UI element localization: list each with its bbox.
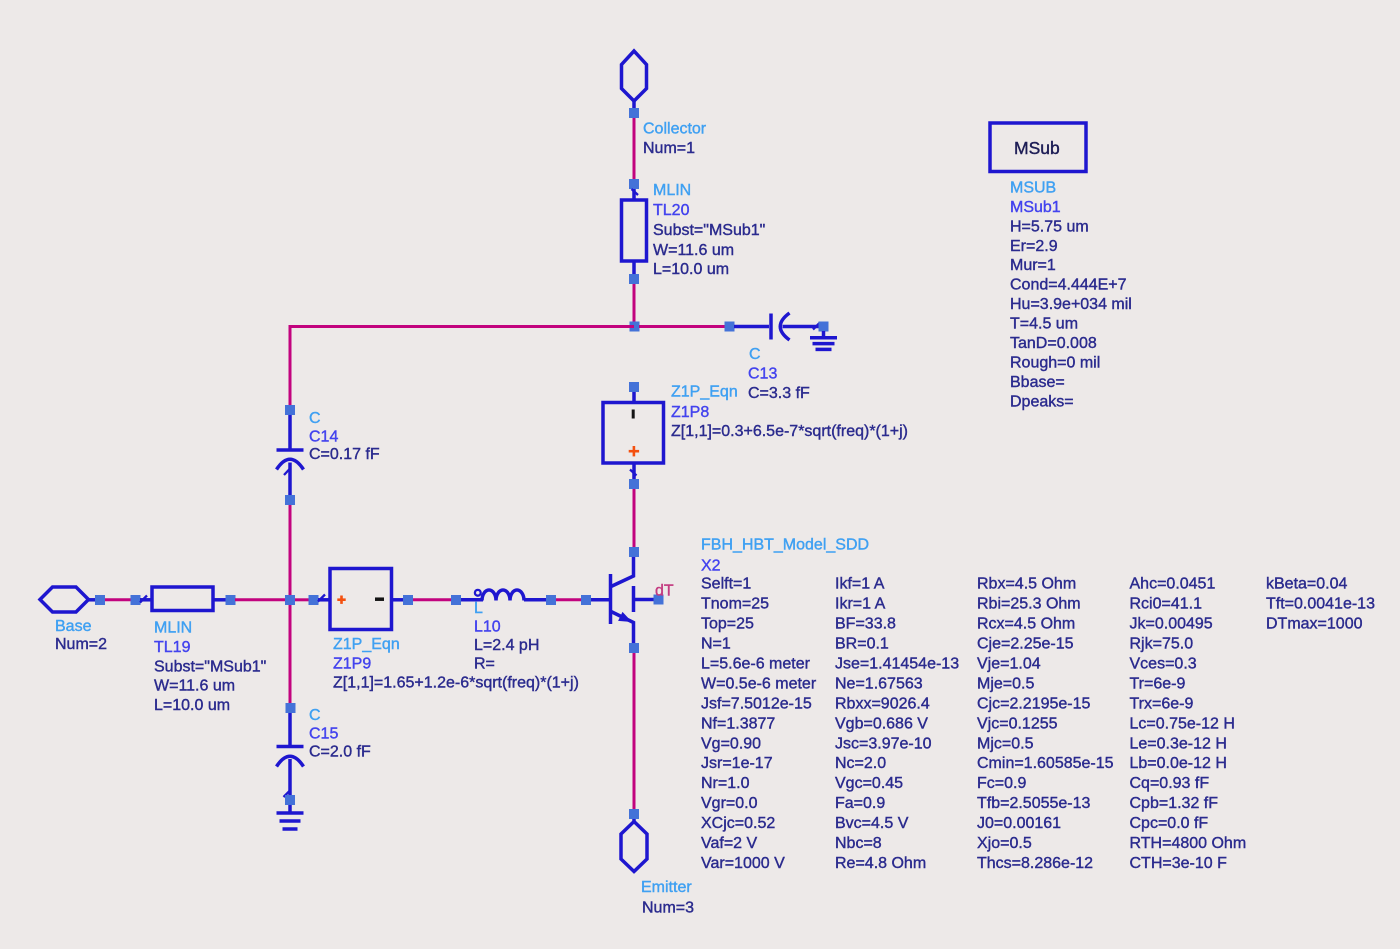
- Z1P_Eqn Z1P9: [318, 569, 404, 630]
- ground at C15: [277, 805, 304, 829]
- label MSUB MSub1 parameters: [1010, 179, 1132, 410]
- svg-text:Mjc=0.5: Mjc=0.5: [977, 735, 1034, 752]
- svg-text:Tfb=2.5055e-13: Tfb=2.5055e-13: [977, 795, 1091, 812]
- svg-text:Tr=6e-9: Tr=6e-9: [1130, 676, 1186, 693]
- label X2 parameters column 5: [1266, 576, 1375, 633]
- Z1P_Eqn Z1P8: [603, 392, 664, 480]
- svg-text:Vgc=0.45: Vgc=0.45: [835, 775, 903, 792]
- svg-text:Z[1,1]=0.3+6.5e-7*sqrt(freq)*(: Z[1,1]=0.3+6.5e-7*sqrt(freq)*(1+j): [671, 423, 908, 440]
- svg-text:R=: R=: [474, 656, 495, 673]
- svg-text:C=2.0 fF: C=2.0 fF: [309, 744, 371, 761]
- svg-text:N=1: N=1: [701, 636, 731, 653]
- label FBH_HBT_Model_SDD X2 header: [701, 537, 869, 575]
- wire L10 to transistor base: [556, 598, 582, 601]
- label capacitor C13: [748, 346, 810, 402]
- svg-text:W=11.6 um: W=11.6 um: [653, 242, 734, 259]
- svg-text:Cje=2.25e-15: Cje=2.25e-15: [977, 636, 1074, 653]
- svg-text:BR=0.1: BR=0.1: [835, 636, 889, 653]
- svg-text:Vjc=0.1255: Vjc=0.1255: [977, 715, 1058, 732]
- svg-text:Nbc=8: Nbc=8: [835, 835, 882, 852]
- wire Base port to TL19: [105, 598, 131, 601]
- svg-text:W=11.6 um: W=11.6 um: [154, 678, 235, 695]
- svg-text:Emitter: Emitter: [641, 879, 692, 896]
- svg-text:Ahc=0.0451: Ahc=0.0451: [1130, 576, 1216, 593]
- wire junction to C15: [289, 605, 292, 704]
- node TL19 pin2: [226, 595, 236, 605]
- svg-text:L=10.0 um: L=10.0 um: [653, 261, 729, 278]
- node Z1P8 pin1: [629, 382, 639, 392]
- node C14 pin2: [285, 495, 295, 505]
- capacitor C13: [734, 313, 819, 340]
- svg-text:TL20: TL20: [653, 202, 690, 219]
- svg-text:Mje=0.5: Mje=0.5: [977, 676, 1034, 693]
- svg-text:J0=0.00161: J0=0.00161: [977, 815, 1061, 832]
- svg-text:Le=0.3e-12 H: Le=0.3e-12 H: [1130, 735, 1227, 752]
- svg-text:Vg=0.90: Vg=0.90: [701, 735, 761, 752]
- svg-text:Num=2: Num=2: [55, 636, 107, 653]
- svg-text:Re=4.8 Ohm: Re=4.8 Ohm: [835, 855, 926, 872]
- label port Collector: [643, 120, 707, 157]
- svg-text:Vje=1.04: Vje=1.04: [977, 656, 1041, 673]
- svg-text:Ikr=1 A: Ikr=1 A: [835, 596, 886, 613]
- svg-text:Vaf=2 V: Vaf=2 V: [701, 835, 758, 852]
- svg-text:Subst="MSub1": Subst="MSub1": [154, 658, 266, 675]
- node TL19 pin1: [131, 595, 141, 605]
- svg-text:L10: L10: [474, 619, 501, 636]
- svg-text:C: C: [749, 346, 761, 363]
- svg-text:Num=1: Num=1: [643, 140, 695, 157]
- svg-text:Tft=0.0041e-13: Tft=0.0041e-13: [1266, 596, 1375, 613]
- svg-text:Dpeaks=: Dpeaks=: [1010, 393, 1074, 410]
- label port Base: [55, 618, 107, 653]
- node C15 pin1: [286, 703, 296, 713]
- svg-text:DTmax=1000: DTmax=1000: [1266, 616, 1363, 633]
- node TL20 pin2: [629, 274, 639, 284]
- svg-text:Rci0=41.1: Rci0=41.1: [1130, 596, 1203, 613]
- svg-text:Fc=0.9: Fc=0.9: [977, 775, 1026, 792]
- port Emitter (Term 3): [621, 819, 647, 872]
- pin tick TL20 pin1: [632, 189, 639, 195]
- svg-text:MLIN: MLIN: [154, 620, 192, 637]
- node C13 ground: [819, 322, 829, 332]
- svg-text:Cjc=2.2195e-15: Cjc=2.2195e-15: [977, 695, 1091, 712]
- MLIN TL20: [622, 189, 647, 275]
- svg-text:Cq=0.93 fF: Cq=0.93 fF: [1130, 775, 1210, 792]
- svg-text:Nf=1.3877: Nf=1.3877: [701, 715, 775, 732]
- svg-text:Vgr=0.0: Vgr=0.0: [701, 795, 758, 812]
- svg-text:Jsf=7.5012e-15: Jsf=7.5012e-15: [701, 695, 812, 712]
- svg-text:MLIN: MLIN: [653, 182, 691, 199]
- capacitor C15: [277, 713, 304, 795]
- label X2 parameters column 2: [835, 576, 959, 872]
- svg-text:TanD=0.008: TanD=0.008: [1010, 335, 1097, 352]
- node transistor collector: [629, 547, 639, 557]
- label MLIN TL20: [653, 182, 765, 278]
- svg-text:Top=25: Top=25: [701, 616, 754, 633]
- svg-text:C: C: [309, 707, 321, 724]
- wire emitter to port: [633, 653, 636, 810]
- svg-text:Cond=4.444E+7: Cond=4.444E+7: [1010, 277, 1127, 294]
- svg-text:Ne=1.67563: Ne=1.67563: [835, 676, 923, 693]
- svg-text:XCjc=0.52: XCjc=0.52: [701, 815, 775, 832]
- svg-text:Bvc=4.5 V: Bvc=4.5 V: [835, 815, 909, 832]
- svg-text:Hu=3.9e+034 mil: Hu=3.9e+034 mil: [1010, 296, 1132, 313]
- wire Z1P9 to L10: [413, 598, 452, 601]
- svg-text:Var=1000 V: Var=1000 V: [701, 855, 785, 872]
- svg-text:Cpc=0.0 fF: Cpc=0.0 fF: [1130, 815, 1209, 832]
- svg-text:BF=33.8: BF=33.8: [835, 616, 896, 633]
- wire collector port to TL20: [633, 118, 636, 180]
- svg-text:Jse=1.41454e-13: Jse=1.41454e-13: [835, 656, 959, 673]
- svg-text:MSub1: MSub1: [1010, 199, 1061, 216]
- svg-text:Z[1,1]=1.65+1.2e-6*sqrt(freq)*: Z[1,1]=1.65+1.2e-6*sqrt(freq)*(1+j): [333, 675, 579, 692]
- svg-text:Num=3: Num=3: [642, 899, 694, 916]
- pin tick Z1P9 pin1: [318, 595, 325, 602]
- pin tick C14 pin2: [284, 468, 291, 475]
- node C13 pin1: [725, 322, 735, 332]
- label MLIN TL19: [154, 620, 266, 715]
- svg-text:Base: Base: [55, 618, 92, 635]
- wire junction to Z1P9: [295, 598, 309, 601]
- wire top rail to C13: [639, 325, 725, 328]
- svg-text:Lb=0.0e-12 H: Lb=0.0e-12 H: [1130, 755, 1227, 772]
- port Base (Term 2): [40, 587, 96, 612]
- svg-text:C14: C14: [309, 428, 338, 445]
- wire TL19 to base junction: [235, 598, 286, 601]
- node at Collector port: [629, 108, 639, 118]
- svg-text:CTH=3e-10 F: CTH=3e-10 F: [1130, 855, 1228, 872]
- label capacitor C14: [309, 410, 380, 463]
- svg-text:Rbi=25.3 Ohm: Rbi=25.3 Ohm: [977, 596, 1081, 613]
- svg-text:Thcs=8.286e-12: Thcs=8.286e-12: [977, 855, 1093, 872]
- label inductor L10: [474, 600, 539, 673]
- svg-text:Z1P_Eqn: Z1P_Eqn: [333, 636, 400, 653]
- svg-text:W=0.5e-6 meter: W=0.5e-6 meter: [701, 676, 817, 693]
- node at Emitter port: [629, 809, 639, 819]
- svg-text:Nr=1.0: Nr=1.0: [701, 775, 750, 792]
- svg-text:C=0.17 fF: C=0.17 fF: [309, 446, 380, 463]
- node Z1P9 pin2: [403, 595, 413, 605]
- svg-text:Vces=0.3: Vces=0.3: [1130, 656, 1197, 673]
- svg-text:Jsr=1e-17: Jsr=1e-17: [701, 755, 773, 772]
- wire Z1P8 to transistor collector: [633, 489, 636, 548]
- svg-text:X2: X2: [701, 557, 721, 574]
- svg-text:L=10.0 um: L=10.0 um: [154, 697, 230, 714]
- svg-text:Bbase=: Bbase=: [1010, 374, 1065, 391]
- svg-text:Ikf=1 A: Ikf=1 A: [835, 576, 885, 593]
- svg-text:Jk=0.00495: Jk=0.00495: [1130, 616, 1213, 633]
- svg-text:C=3.3 fF: C=3.3 fF: [748, 385, 810, 402]
- label X2 parameters column 4: [1130, 576, 1247, 872]
- svg-text:Z1P8: Z1P8: [671, 404, 709, 421]
- svg-text:MSUB: MSUB: [1010, 179, 1056, 196]
- svg-text:Z1P9: Z1P9: [333, 656, 371, 673]
- label capacitor C15: [309, 707, 371, 761]
- node transistor base: [581, 595, 591, 605]
- svg-text:Rbxx=9026.4: Rbxx=9026.4: [835, 695, 930, 712]
- junction node top rail: [630, 322, 640, 332]
- label Z1P_Eqn Z1P9: [333, 636, 579, 691]
- svg-text:Rcx=4.5 Ohm: Rcx=4.5 Ohm: [977, 616, 1075, 633]
- node L10 pin2: [546, 595, 556, 605]
- pin tick Z1P8 pin2: [630, 470, 637, 476]
- svg-text:Nc=2.0: Nc=2.0: [835, 755, 886, 772]
- svg-text:Subst="MSub1": Subst="MSub1": [653, 222, 765, 239]
- node transistor dT pin: [654, 595, 664, 605]
- label Z1P_Eqn Z1P8: [671, 383, 908, 440]
- node at Base port: [95, 595, 105, 605]
- label port Emitter: [641, 879, 694, 916]
- svg-text:Selft=1: Selft=1: [701, 576, 751, 593]
- svg-text:L: L: [474, 600, 483, 617]
- label X2 parameters column 3: [977, 576, 1114, 872]
- transistor X2 FBH_HBT_Model_SDD: [591, 553, 654, 648]
- node Z1P9 pin1: [309, 595, 319, 605]
- wire C14 junction vertical: [289, 505, 292, 595]
- svg-text:L=2.4 pH: L=2.4 pH: [474, 637, 539, 654]
- svg-text:Collector: Collector: [643, 120, 707, 137]
- node C14 pin1: [285, 405, 295, 415]
- svg-text:C13: C13: [748, 365, 777, 382]
- label X2 parameters column 1: [701, 576, 817, 872]
- ground at C13: [810, 331, 837, 349]
- svg-text:Lc=0.75e-12 H: Lc=0.75e-12 H: [1130, 715, 1235, 732]
- svg-text:FBH_HBT_Model_SDD: FBH_HBT_Model_SDD: [701, 537, 869, 554]
- svg-text:Cpb=1.32 fF: Cpb=1.32 fF: [1130, 795, 1219, 812]
- pin tick C15 pin2: [284, 790, 291, 797]
- svg-text:RTH=4800 Ohm: RTH=4800 Ohm: [1130, 835, 1247, 852]
- svg-text:Vgb=0.686 V: Vgb=0.686 V: [835, 715, 928, 732]
- wire top rail horizontal left: [290, 327, 634, 407]
- svg-text:Xjo=0.5: Xjo=0.5: [977, 835, 1032, 852]
- svg-text:dT: dT: [655, 583, 674, 600]
- capacitor C14: [277, 415, 304, 496]
- pin tick C13 ground: [813, 323, 820, 330]
- inductor L10: [461, 590, 547, 601]
- svg-text:C: C: [309, 410, 321, 427]
- svg-text:TL19: TL19: [154, 639, 191, 656]
- svg-text:Jsc=3.97e-10: Jsc=3.97e-10: [835, 735, 932, 752]
- svg-text:C15: C15: [309, 725, 338, 742]
- svg-text:Mur=1: Mur=1: [1010, 257, 1056, 274]
- svg-text:Rjk=75.0: Rjk=75.0: [1130, 636, 1194, 653]
- svg-text:Tnom=25: Tnom=25: [701, 596, 769, 613]
- svg-text:Rbx=4.5 Ohm: Rbx=4.5 Ohm: [977, 576, 1076, 593]
- wire TL20 to junction: [633, 284, 636, 322]
- svg-text:kBeta=0.04: kBeta=0.04: [1266, 576, 1348, 593]
- svg-text:Er=2.9: Er=2.9: [1010, 238, 1058, 255]
- pin tick TL19 pin1: [140, 596, 147, 603]
- node TL20 pin1: [629, 179, 639, 189]
- svg-text:Z1P_Eqn: Z1P_Eqn: [671, 383, 738, 400]
- svg-text:Cmin=1.60585e-15: Cmin=1.60585e-15: [977, 755, 1114, 772]
- MLIN TL19: [140, 587, 226, 611]
- port Collector (Term 1): [622, 51, 647, 109]
- node Z1P8 pin2: [629, 479, 639, 489]
- MSub substrate box: [990, 123, 1086, 172]
- svg-text:MSub: MSub: [1014, 138, 1060, 158]
- node transistor emitter: [629, 643, 639, 653]
- svg-text:L=5.6e-6 meter: L=5.6e-6 meter: [701, 656, 811, 673]
- svg-text:Trx=6e-9: Trx=6e-9: [1130, 695, 1194, 712]
- svg-text:H=5.75 um: H=5.75 um: [1010, 218, 1089, 235]
- junction node base rail: [285, 595, 295, 605]
- svg-text:Fa=0.9: Fa=0.9: [835, 795, 885, 812]
- node C15 pin2: [285, 795, 295, 805]
- svg-text:T=4.5 um: T=4.5 um: [1010, 316, 1078, 333]
- node L10 pin1: [451, 595, 461, 605]
- svg-text:Rough=0 mil: Rough=0 mil: [1010, 354, 1100, 371]
